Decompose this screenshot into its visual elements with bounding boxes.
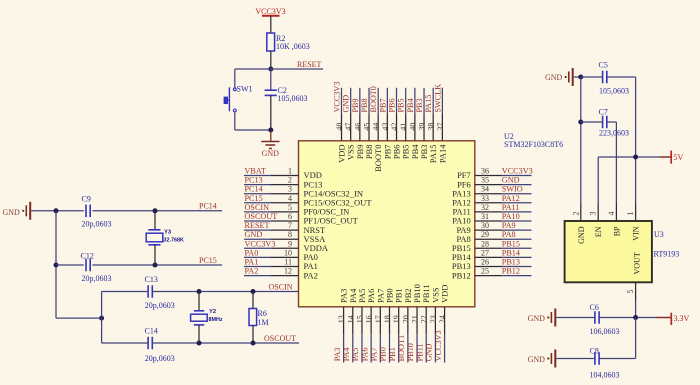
pin 5 PF0/OSC_IN left wire + net label OSCIN: [244, 203, 349, 217]
resistor R6: [249, 309, 269, 328]
svg-text:PB14: PB14: [502, 248, 520, 257]
pin 19 PB1 bottom wire + net label PB1: [388, 288, 404, 362]
svg-text:104,0603: 104,0603: [590, 371, 620, 380]
wire RESET to SW1: [234, 69, 236, 88]
wire left column elbow: [56, 317, 102, 319]
U3 pin name BP: [612, 226, 621, 236]
wire R2 to RESET node: [270, 51, 272, 69]
svg-text:C8: C8: [590, 347, 599, 356]
svg-text:GND: GND: [342, 95, 351, 113]
pin 25 PB12 right wire + net label PB12: [452, 267, 532, 281]
svg-text:PA6: PA6: [360, 347, 369, 361]
pin 6 PF1/OSC_OUT left wire + net label OSCOUT: [244, 212, 359, 226]
svg-text:RT9193: RT9193: [654, 249, 680, 258]
pin 1 VDD left wire + net label VBAT: [244, 167, 322, 181]
wire OSCIN row: [102, 291, 148, 293]
svg-text:SWIO: SWIO: [502, 185, 523, 194]
power port GND near C8: [528, 350, 556, 368]
svg-text:PB13: PB13: [502, 258, 520, 267]
svg-text:RESET: RESET: [297, 60, 322, 69]
node C12 tap: [54, 263, 59, 268]
pin 18 PB0 bottom wire + net label PB0: [379, 288, 395, 362]
svg-text:35: 35: [481, 176, 489, 185]
pin 44 BOOT0 top wire + net label BOOT0: [369, 86, 383, 172]
pin 32 PA11 right wire + net label PA11: [453, 203, 532, 217]
svg-text:39: 39: [418, 123, 427, 131]
pin 35 PF6 right wire + net label GND: [457, 176, 531, 190]
wire C7 row: [581, 121, 603, 123]
svg-text:PA12: PA12: [502, 194, 520, 203]
svg-text:27: 27: [481, 248, 489, 257]
svg-text:PB4: PB4: [406, 98, 415, 112]
svg-text:48: 48: [335, 123, 344, 131]
svg-text:3: 3: [589, 212, 598, 216]
pin 27 PB14 right wire + net label PB14: [452, 248, 532, 262]
pin 24 VDD bottom wire + net label VCC3V3: [434, 285, 450, 363]
wire GND to C5 node: [574, 76, 581, 78]
svg-text:GND: GND: [425, 343, 434, 361]
capacitor C14: [145, 327, 175, 364]
capacitor C13: [145, 275, 175, 310]
pin 30 PA9 right wire + net label PA9: [456, 221, 531, 235]
svg-text:PB6: PB6: [388, 98, 397, 112]
svg-text:C6: C6: [590, 303, 599, 312]
svg-text:23: 23: [429, 315, 438, 323]
svg-text:20p,0603: 20p,0603: [145, 301, 175, 310]
svg-text:PB8: PB8: [360, 98, 369, 112]
pin 37 PA14 top wire + net label SWCLK: [433, 84, 447, 163]
svg-text:PB3: PB3: [415, 98, 424, 112]
svg-text:PA14: PA14: [437, 144, 447, 163]
wire C5 row: [581, 76, 603, 78]
svg-text:20p,0603: 20p,0603: [82, 274, 112, 283]
svg-text:3.3V: 3.3V: [674, 314, 690, 323]
svg-text:VCC3V3: VCC3V3: [434, 330, 443, 361]
capacitor C9: [82, 195, 112, 229]
svg-text:PA9: PA9: [502, 221, 516, 230]
svg-text:OSCOUT: OSCOUT: [264, 334, 296, 343]
pin 42 PB6 top wire + net label PB6: [388, 88, 402, 159]
node 3.3V junction: [633, 315, 638, 320]
wire C2 to ground node: [270, 95, 272, 130]
svg-text:6: 6: [288, 212, 292, 221]
pin 20 PB2 bottom wire + net label BOOT1: [397, 288, 413, 362]
power port GND near C5: [545, 68, 573, 86]
power port VCC3V3: [255, 7, 285, 33]
pin 33 PA12 right wire + net label PA12: [452, 194, 531, 208]
svg-text:24: 24: [438, 315, 447, 323]
svg-text:VCC3V3: VCC3V3: [245, 239, 276, 248]
svg-text:PA7: PA7: [370, 347, 379, 361]
svg-text:OSCOUT: OSCOUT: [245, 212, 278, 221]
svg-text:25: 25: [481, 267, 489, 276]
svg-text:PC14: PC14: [245, 185, 263, 194]
svg-text:40: 40: [408, 123, 417, 131]
node ground junction: [268, 128, 273, 133]
svg-text:33: 33: [481, 194, 489, 203]
svg-text:43: 43: [381, 123, 390, 131]
pin 4 PC15/OSC32_OUT left wire + net label PC15: [244, 194, 372, 208]
svg-text:PA0: PA0: [245, 248, 259, 257]
pin 8 VSSA left wire + net label GND: [244, 230, 326, 244]
svg-text:16: 16: [365, 315, 374, 323]
svg-text:BP: BP: [612, 226, 621, 236]
svg-text:PB12: PB12: [452, 270, 471, 280]
svg-text:4: 4: [607, 212, 616, 216]
pin 22 PB11 bottom wire + net label PB11: [415, 284, 431, 362]
svg-text:5V: 5V: [674, 153, 684, 162]
svg-text:PA15: PA15: [424, 95, 433, 113]
pin 45 PB8 top wire + net label PB8: [360, 88, 374, 159]
svg-text:14: 14: [346, 315, 355, 323]
svg-text:PC15: PC15: [199, 256, 217, 265]
svg-text:VCC3V3: VCC3V3: [502, 167, 533, 176]
ground GND earth symbol: [261, 130, 279, 158]
node R6 bottom: [251, 341, 256, 346]
U3 pin name VOUT: [633, 252, 642, 274]
svg-text:20: 20: [401, 315, 410, 323]
wire C9 to PC14 label: [92, 210, 222, 212]
pin 38 PA15 top wire + net label PA15: [424, 88, 438, 163]
svg-text:5: 5: [626, 290, 635, 294]
U3 pin 1 number: [626, 212, 635, 216]
power port 3.3V: [656, 313, 690, 325]
wire RESET net: [235, 68, 323, 70]
svg-text:47: 47: [344, 123, 353, 131]
svg-text:C14: C14: [145, 327, 158, 336]
svg-text:9: 9: [288, 239, 292, 248]
pin 34 PA13 right wire + net label SWIO: [452, 185, 531, 199]
wire GND column U3: [580, 77, 582, 203]
pin 43 PB7 top wire + net label PB7: [378, 88, 392, 159]
svg-text:13: 13: [337, 315, 346, 323]
U3 designator: [654, 230, 680, 258]
U3 pin 4 number: [607, 212, 616, 216]
svg-text:PB0: PB0: [379, 347, 388, 361]
svg-text:17: 17: [374, 315, 383, 323]
wire Y3 bottom: [154, 245, 156, 265]
pin 7 NRST left wire + net label RESET: [244, 221, 326, 235]
svg-text:PA4: PA4: [342, 347, 351, 361]
svg-text:PB1: PB1: [388, 347, 397, 361]
wire R6 bottom: [252, 326, 254, 344]
wire C6 row 3.3V: [556, 317, 595, 319]
power port GND near C6: [528, 309, 556, 327]
svg-text:GND: GND: [245, 230, 263, 239]
capacitor C6: [590, 303, 620, 336]
svg-text:PB15: PB15: [502, 239, 520, 248]
svg-text:PB10: PB10: [406, 343, 415, 361]
svg-text:PB9: PB9: [351, 98, 360, 112]
pin 40 PB4 top wire + net label PB4: [406, 88, 420, 159]
pin 46 PB9 top wire + net label PB9: [351, 88, 365, 159]
pin 28 PB15 right wire + net label PB15: [452, 239, 532, 253]
pin 11 PA1 left wire + net label PA1: [244, 258, 318, 272]
node Y2 top: [197, 289, 202, 294]
svg-text:19: 19: [392, 315, 401, 323]
pin 47 VSS top wire + net label GND: [342, 88, 356, 160]
svg-text:12: 12: [284, 267, 292, 276]
svg-text:20p,0603: 20p,0603: [82, 220, 112, 229]
node Y3 bottom: [153, 263, 158, 268]
wire left column: [55, 211, 57, 318]
svg-text:Y2: Y2: [209, 309, 216, 315]
svg-text:20p,0603: 20p,0603: [145, 354, 175, 363]
svg-text:C13: C13: [145, 275, 158, 284]
pin 39 PB3 top wire + net label PB3: [415, 88, 429, 159]
svg-text:36: 36: [481, 167, 489, 176]
node OSC feed: [99, 316, 104, 321]
capacitor C12: [81, 251, 112, 283]
svg-text:PB11: PB11: [415, 343, 424, 361]
svg-text:34: 34: [481, 185, 489, 194]
svg-text:11: 11: [284, 258, 292, 267]
svg-text:SWCLK: SWCLK: [433, 84, 442, 113]
svg-text:29: 29: [481, 230, 489, 239]
svg-text:21: 21: [411, 315, 420, 323]
svg-text:38: 38: [427, 123, 436, 131]
wire C8 up to 3.3V node: [635, 318, 637, 359]
pin 2 PC13 left wire + net label PC13: [244, 176, 322, 190]
svg-text:PA10: PA10: [502, 212, 520, 221]
node C7 left: [578, 120, 583, 125]
U3 pin 3 number: [589, 212, 598, 216]
node left column top: [54, 208, 59, 213]
svg-text:PA5: PA5: [351, 347, 360, 361]
pin 23 VSS bottom wire + net label GND: [425, 287, 441, 362]
capacitor C8: [590, 347, 620, 380]
pin 48 VDD top wire + net label VCC3V3: [333, 82, 347, 163]
pin 17 PA7 bottom wire + net label PA7: [370, 289, 386, 363]
svg-text:GND: GND: [262, 149, 280, 158]
svg-text:18: 18: [383, 315, 392, 323]
svg-text:31: 31: [481, 212, 489, 221]
wire C8 row: [556, 358, 595, 360]
svg-text:GND: GND: [528, 355, 546, 364]
wire Y2 bottom: [198, 325, 200, 343]
IC U2 designator: [504, 132, 563, 149]
pin 3 PC14/OSC32_IN left wire + net label PC14: [244, 185, 363, 199]
wire OSC left column: [101, 292, 103, 344]
svg-text:PB5: PB5: [397, 98, 406, 112]
wire C12 row PC15: [56, 264, 84, 266]
svg-text:VDD: VDD: [440, 285, 450, 303]
switch SW1: [224, 85, 253, 112]
svg-text:SW1: SW1: [237, 85, 253, 94]
node RESET junction: [268, 67, 273, 72]
pin 16 PA6 bottom wire + net label PA6: [360, 289, 376, 363]
svg-text:Y3: Y3: [164, 229, 172, 235]
regulator U3 body: [565, 221, 652, 282]
wire Y2 top: [198, 292, 200, 311]
svg-text:223,0603: 223,0603: [599, 129, 629, 138]
svg-text:PB7: PB7: [378, 98, 387, 112]
svg-text:32.768K: 32.768K: [164, 237, 184, 243]
pin 9 VDDA left wire + net label VCC3V3: [244, 239, 329, 253]
svg-text:R6: R6: [258, 309, 267, 318]
svg-text:8: 8: [288, 230, 292, 239]
wire R6 top: [252, 292, 254, 309]
svg-text:1: 1: [288, 167, 292, 176]
node Y3 top: [153, 208, 158, 213]
svg-text:1: 1: [626, 212, 635, 216]
pin 15 PA5 bottom wire + net label PA5: [351, 289, 367, 363]
svg-text:PC13: PC13: [245, 176, 263, 185]
svg-text:44: 44: [372, 123, 381, 131]
capacitor C5: [599, 60, 630, 95]
svg-text:2: 2: [571, 212, 580, 216]
resistor R2: [267, 33, 310, 51]
svg-text:4: 4: [288, 194, 292, 203]
svg-text:106,0603: 106,0603: [590, 327, 620, 336]
svg-text:46: 46: [353, 123, 362, 131]
pin 36 PF7 right wire + net label VCC3V3: [457, 167, 533, 181]
svg-text:41: 41: [399, 123, 408, 131]
svg-text:VIN: VIN: [632, 226, 641, 240]
svg-text:30: 30: [481, 221, 489, 230]
wire OSCOUT row: [102, 342, 148, 344]
node Y2 bottom: [197, 341, 202, 346]
svg-text:BOOT0: BOOT0: [369, 86, 378, 112]
svg-text:PA1: PA1: [245, 258, 259, 267]
svg-text:3: 3: [288, 185, 292, 194]
svg-text:5: 5: [288, 203, 292, 212]
svg-text:15: 15: [355, 315, 364, 323]
svg-text:U3: U3: [654, 230, 664, 239]
svg-text:C12: C12: [81, 251, 94, 260]
U3 pin 5 wire: [626, 282, 636, 317]
svg-text:VCC3V3: VCC3V3: [333, 82, 342, 113]
pin 10 PA0 left wire + net label PA0: [244, 248, 318, 262]
svg-text:10K ,0603: 10K ,0603: [276, 42, 310, 51]
wire EN column: [597, 157, 599, 203]
U3 pin name EN: [594, 226, 603, 237]
svg-text:GND: GND: [3, 208, 21, 217]
wire RESET node to C2: [270, 69, 272, 90]
node C5 left: [578, 75, 583, 80]
wire Y3 top: [154, 211, 156, 230]
svg-text:2: 2: [288, 176, 292, 185]
svg-text:PA8: PA8: [502, 230, 516, 239]
svg-text:GND: GND: [577, 226, 586, 244]
svg-text:28: 28: [481, 239, 489, 248]
svg-text:STM32F103C8T6: STM32F103C8T6: [504, 140, 563, 149]
svg-text:VOUT: VOUT: [633, 252, 642, 274]
wire 5V rail: [598, 156, 671, 158]
svg-text:32: 32: [481, 203, 489, 212]
svg-text:7: 7: [288, 221, 292, 230]
svg-text:RESET: RESET: [245, 221, 270, 230]
svg-text:VBAT: VBAT: [245, 167, 266, 176]
svg-text:PA2: PA2: [304, 270, 318, 280]
svg-text:PA2: PA2: [245, 267, 259, 276]
crystal Y3: [146, 229, 184, 245]
node VIN 5V junction: [633, 155, 638, 160]
pin 26 PB13 right wire + net label PB13: [452, 258, 532, 272]
capacitor C2: [265, 86, 308, 103]
node R6 top: [251, 289, 256, 294]
svg-text:BOOT1: BOOT1: [397, 335, 406, 361]
crystal Y2: [191, 309, 223, 325]
svg-text:OSCIN: OSCIN: [269, 283, 293, 292]
wire GND to C9: [31, 210, 84, 212]
svg-text:PA3: PA3: [333, 347, 342, 361]
svg-text:PA11: PA11: [502, 203, 520, 212]
pin 21 PB10 bottom wire + net label PB10: [406, 284, 422, 362]
pin 13 PA3 bottom wire + net label PA3: [333, 289, 349, 363]
power port GND left: [3, 202, 31, 220]
svg-text:GND: GND: [502, 176, 520, 185]
power port 5V: [660, 151, 684, 164]
svg-text:8MHz: 8MHz: [209, 317, 223, 323]
svg-text:22: 22: [420, 315, 429, 323]
svg-text:PC15: PC15: [245, 194, 263, 203]
wire VIN column: [635, 77, 637, 203]
svg-text:1M: 1M: [258, 318, 269, 327]
pin 12 PA2 left wire + net label PA2: [244, 267, 318, 281]
U3 pin 2 number: [571, 212, 580, 216]
svg-text:GND: GND: [528, 314, 546, 323]
svg-text:PC14: PC14: [199, 202, 217, 211]
svg-text:GND: GND: [545, 73, 563, 82]
svg-text:PB12: PB12: [502, 267, 520, 276]
wire BP column: [615, 122, 617, 203]
svg-text:C7: C7: [599, 107, 608, 116]
pin 29 PA8 right wire + net label PA8: [456, 230, 531, 244]
svg-text:37: 37: [436, 123, 445, 131]
U3 pin name VIN: [632, 226, 641, 240]
capacitor C7: [599, 107, 630, 137]
pin 41 PB5 top wire + net label PB5: [397, 88, 411, 159]
pin 14 PA4 bottom wire + net label PA4: [342, 288, 358, 363]
IC U2 body: [299, 141, 475, 307]
svg-text:OSCIN: OSCIN: [245, 203, 270, 212]
U3 pin name GND: [577, 226, 586, 244]
svg-text:45: 45: [363, 123, 372, 131]
svg-text:26: 26: [481, 258, 489, 267]
svg-text:42: 42: [390, 123, 399, 131]
svg-text:105,0603: 105,0603: [599, 87, 629, 96]
svg-text:105,0603: 105,0603: [278, 94, 308, 103]
svg-text:C5: C5: [599, 60, 608, 69]
wire SW1 to ground node: [234, 112, 236, 130]
svg-text:C9: C9: [82, 195, 91, 204]
pin 31 PA10 right wire + net label PA10: [452, 212, 531, 226]
svg-text:EN: EN: [594, 226, 603, 237]
svg-text:10: 10: [284, 248, 292, 257]
